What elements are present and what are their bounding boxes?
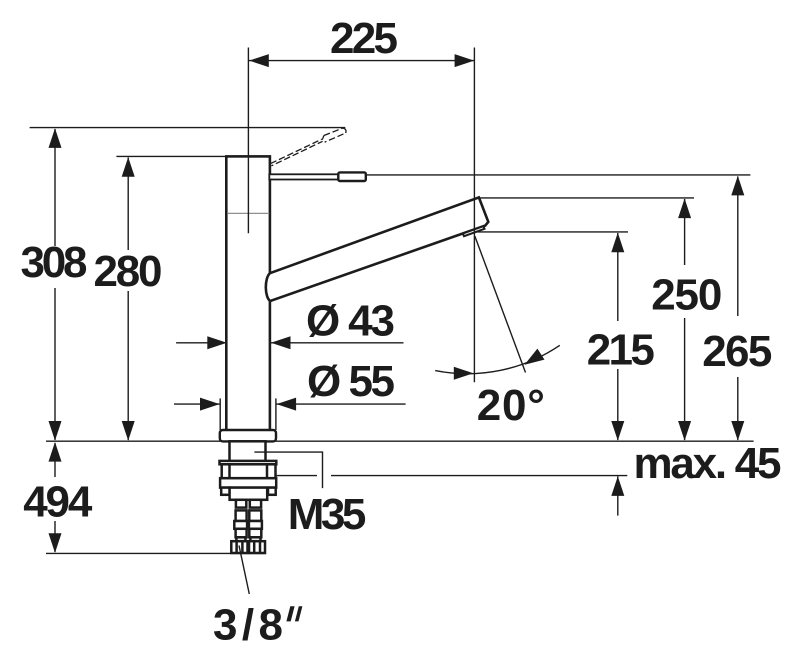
Ø43 dim	[176, 342, 227, 344]
3/8 leader	[239, 546, 249, 595]
308 vertical	[54, 129, 56, 246]
shank	[230, 441, 266, 461]
max45	[611, 476, 624, 496]
308	[49, 128, 62, 148]
280 ref	[116, 155, 227, 157]
225	[249, 54, 269, 67]
494 vertical	[54, 443, 56, 477]
inch double prime marks	[286, 606, 302, 621]
lever grip (horizontal)	[338, 172, 366, 181]
dashed raised lever	[271, 128, 346, 166]
svg-text:M35: M35	[288, 490, 367, 539]
base flange	[220, 430, 276, 441]
side tabs	[221, 488, 229, 495]
arrowheads	[49, 54, 745, 553]
M35 leader	[254, 452, 322, 488]
svg-text:225: 225	[330, 14, 398, 63]
215	[611, 233, 624, 253]
svg-text:Ø 55: Ø 55	[307, 357, 395, 406]
svg-text:265: 265	[702, 327, 772, 376]
280 vertical	[127, 157, 129, 250]
svg-text:250: 250	[651, 271, 722, 320]
svg-text:max. 45: max. 45	[634, 439, 782, 488]
svg-text:3/8: 3/8	[213, 601, 283, 650]
max 45 line	[276, 475, 317, 477]
svg-text:308: 308	[21, 238, 88, 287]
Ø55 extension lines	[219, 398, 221, 430]
nut 2	[220, 478, 276, 487]
Ø43	[207, 336, 227, 349]
20 deg stream line	[475, 236, 526, 373]
faucet body column	[226, 156, 270, 432]
bottom line	[46, 552, 266, 554]
Ø55	[200, 398, 220, 411]
nut 1	[222, 464, 276, 478]
svg-text:215: 215	[587, 326, 655, 375]
dimension lines	[30, 48, 754, 595]
washer plate	[220, 461, 277, 464]
265 vertical	[737, 177, 739, 317]
494	[49, 442, 62, 462]
deck line	[46, 440, 754, 442]
arc arrows	[454, 367, 474, 380]
280	[122, 157, 135, 177]
265	[731, 176, 744, 196]
250 vertical	[684, 199, 686, 265]
Ø55 dim	[174, 403, 220, 405]
215 vertical	[617, 233, 619, 321]
svg-text:Ø 43: Ø 43	[306, 297, 395, 346]
svg-text:494: 494	[23, 478, 93, 527]
20 deg arc	[435, 345, 560, 373]
right pipe stack	[250, 500, 261, 508]
308 top ref	[30, 127, 346, 129]
below-deck hardware	[220, 441, 277, 553]
spout	[266, 197, 488, 301]
hex end fittings	[231, 541, 247, 553]
left pipe stack	[236, 500, 246, 508]
svg-text:280: 280	[94, 247, 163, 296]
225	[249, 60, 474, 62]
max45 arrow stem	[617, 476, 619, 515]
lever rod (horizontal)	[269, 174, 338, 179]
aerator	[463, 226, 485, 236]
faint joint line on body	[227, 212, 269, 214]
svg-text:20°: 20°	[477, 381, 545, 430]
250	[678, 199, 691, 219]
valve middle block	[230, 488, 268, 500]
